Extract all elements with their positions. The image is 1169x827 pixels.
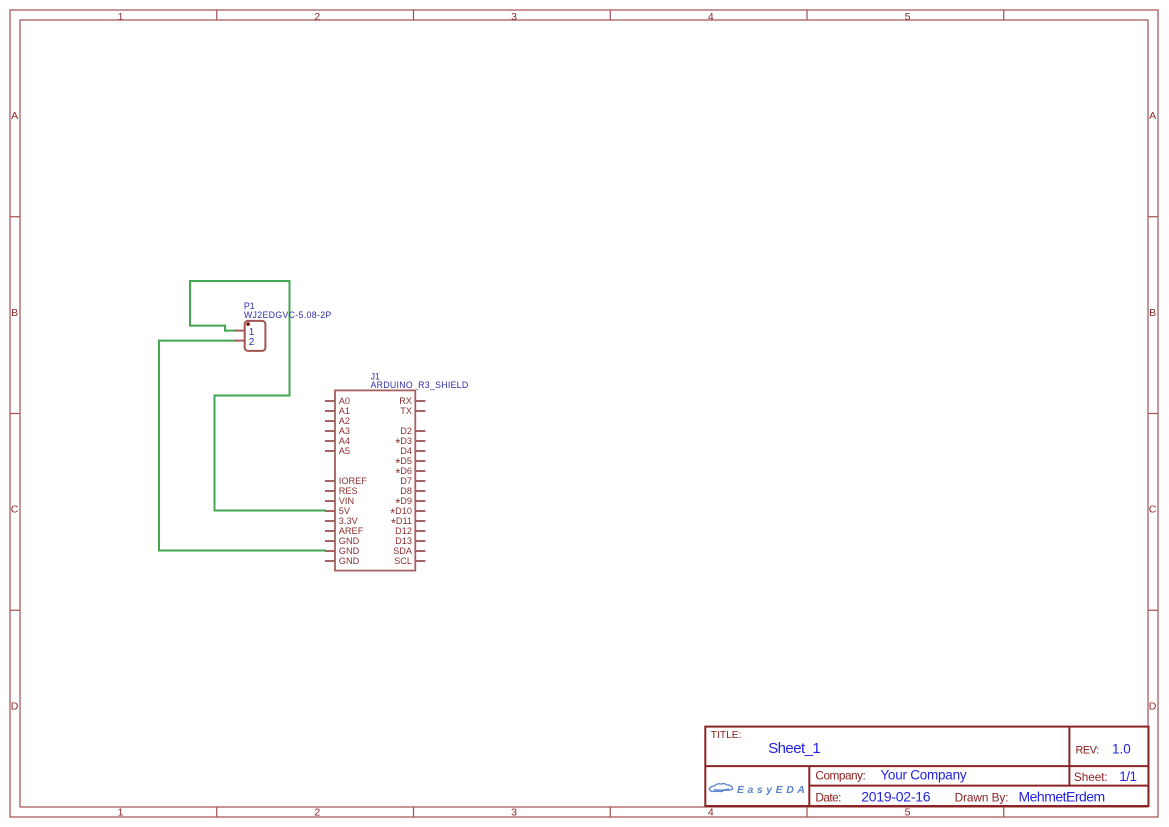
wire P1.2 to J1.GND seg2 xyxy=(158,341,160,551)
svg-text:1.0: 1.0 xyxy=(1112,741,1131,756)
J1 pin RX xyxy=(415,400,425,402)
svg-text:GND: GND xyxy=(339,546,360,556)
svg-text:GND: GND xyxy=(339,536,360,546)
J1 pin SDA xyxy=(415,550,425,552)
svg-text:GND: GND xyxy=(339,556,360,566)
EasyEDA logo xyxy=(709,784,806,796)
J1 pin D3 xyxy=(415,440,425,442)
svg-text:5: 5 xyxy=(905,807,911,819)
svg-text:C: C xyxy=(11,504,19,516)
J1 pin A4 xyxy=(325,440,335,442)
J1 pin 5V xyxy=(325,510,335,512)
svg-text:1: 1 xyxy=(118,11,124,23)
svg-text:B: B xyxy=(1149,307,1156,319)
svg-text:A0: A0 xyxy=(339,396,350,406)
svg-text:TX: TX xyxy=(400,406,412,416)
svg-text:MehmetErdem: MehmetErdem xyxy=(1019,789,1106,805)
svg-text:ARDUINO_R3_SHIELD: ARDUINO_R3_SHIELD xyxy=(371,380,469,390)
svg-text:RES: RES xyxy=(339,486,358,496)
svg-text:Drawn By:: Drawn By: xyxy=(955,791,1009,805)
svg-text:1: 1 xyxy=(118,807,124,819)
svg-text:5V: 5V xyxy=(339,506,351,516)
svg-text:C: C xyxy=(1149,504,1157,516)
svg-text:3: 3 xyxy=(511,807,517,819)
J1 pin GND a xyxy=(325,540,335,542)
J1 pin GND c xyxy=(325,560,335,562)
wire P1.1 to J1.5V seg5 xyxy=(190,280,290,282)
J1 pin D13 xyxy=(415,540,425,542)
wire P1.2 to J1.GND seg1 xyxy=(159,340,235,342)
svg-text:AREF: AREF xyxy=(339,526,364,536)
wire P1.1 to J1.5V seg4 xyxy=(189,281,191,326)
svg-text:A3: A3 xyxy=(339,426,350,436)
svg-text:D12: D12 xyxy=(395,526,412,536)
J1 pin A1 xyxy=(325,410,335,412)
svg-text:D4: D4 xyxy=(400,446,412,456)
svg-text:2019-02-16: 2019-02-16 xyxy=(861,789,931,805)
svg-text:B: B xyxy=(11,307,18,319)
svg-text:SDA: SDA xyxy=(393,546,413,556)
J1 pin A3 xyxy=(325,430,335,432)
svg-text:TITLE:: TITLE: xyxy=(711,730,742,741)
J1 pin D9 xyxy=(415,500,425,502)
svg-text:3.3V: 3.3V xyxy=(339,516,359,526)
svg-text:IOREF: IOREF xyxy=(339,476,367,486)
J1 pin TX xyxy=(415,410,425,412)
svg-text:Date:: Date: xyxy=(815,791,841,805)
svg-text:A: A xyxy=(1149,110,1156,122)
IC J1 xyxy=(335,371,468,570)
svg-text:2: 2 xyxy=(314,807,320,819)
J1 pin VIN xyxy=(325,500,335,502)
J1 pin D6 xyxy=(415,470,425,472)
J1 pin D2 xyxy=(415,430,425,432)
wire P1.1 to J1.5V seg7 xyxy=(215,395,290,397)
svg-text:SCL: SCL xyxy=(394,556,412,566)
wire P1.1 to J1.5V seg8 xyxy=(214,396,216,511)
svg-text:Company:: Company: xyxy=(815,769,865,783)
svg-text:REV:: REV: xyxy=(1076,744,1100,756)
svg-text:D7: D7 xyxy=(400,476,412,486)
J1 pin D8 xyxy=(415,490,425,492)
svg-text:4: 4 xyxy=(708,807,714,819)
svg-text:1/1: 1/1 xyxy=(1119,769,1137,784)
svg-text:A4: A4 xyxy=(339,436,350,446)
svg-text:Your Company: Your Company xyxy=(880,768,966,783)
wire P1.2 to J1.GND seg3 xyxy=(159,550,325,552)
J1 pin D10 xyxy=(415,510,425,512)
wire P1.1 to J1.5V seg6 xyxy=(289,281,291,396)
J1 pin D12 xyxy=(415,530,425,532)
svg-text:Sheet:: Sheet: xyxy=(1074,770,1108,784)
P1 pin 2 xyxy=(235,337,255,348)
connector P1 xyxy=(244,301,332,351)
svg-text:WJ2EDGVC-5.08-2P: WJ2EDGVC-5.08-2P xyxy=(244,310,332,320)
svg-text:D: D xyxy=(11,700,19,712)
J1 pin AREF xyxy=(325,530,335,532)
svg-text:5: 5 xyxy=(905,11,911,23)
J1 pin RES xyxy=(325,490,335,492)
J1 pin A2 xyxy=(325,420,335,422)
P1 pin 1 xyxy=(235,327,255,338)
svg-text:D: D xyxy=(1149,700,1157,712)
svg-text:A: A xyxy=(11,110,18,122)
svg-text:2: 2 xyxy=(249,337,255,348)
svg-text:Sheet_1: Sheet_1 xyxy=(768,740,821,757)
J1 pin D4 xyxy=(415,450,425,452)
svg-text:4: 4 xyxy=(708,11,714,23)
svg-text:A5: A5 xyxy=(339,446,350,456)
wire P1.1 to J1.5V seg1 xyxy=(225,330,235,332)
wire P1.1 to J1.5V seg9 xyxy=(215,510,326,512)
J1 pin D11 xyxy=(415,520,425,522)
svg-text:A1: A1 xyxy=(339,406,350,416)
svg-text:VIN: VIN xyxy=(339,496,354,506)
J1 pin SCL xyxy=(415,560,425,562)
J1 pin 3.3V xyxy=(325,520,335,522)
J1 pin A0 xyxy=(325,400,335,402)
svg-text:A2: A2 xyxy=(339,416,350,426)
J1 pin D7 xyxy=(415,480,425,482)
wire P1.1 to J1.5V seg2 xyxy=(224,326,226,331)
J1 pin GND b xyxy=(325,550,335,552)
J1 pin A5 xyxy=(325,450,335,452)
J1 pin D5 xyxy=(415,460,425,462)
wire P1.1 to J1.5V seg3 xyxy=(190,325,225,327)
J1 pin IOREF xyxy=(325,480,335,482)
svg-text:RX: RX xyxy=(399,396,412,406)
svg-text:3: 3 xyxy=(511,11,517,23)
svg-text:2: 2 xyxy=(314,11,320,23)
title block xyxy=(705,727,1148,806)
svg-text:D8: D8 xyxy=(400,486,412,496)
svg-text:D13: D13 xyxy=(395,536,412,546)
svg-text:D2: D2 xyxy=(400,426,412,436)
